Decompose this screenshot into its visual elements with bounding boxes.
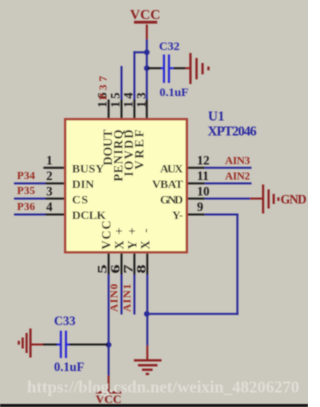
svg-text:BUSY: BUSY xyxy=(72,162,104,176)
svg-text:14: 14 xyxy=(121,92,135,108)
svg-text:11: 11 xyxy=(197,169,209,183)
svg-text:1: 1 xyxy=(46,154,52,168)
svg-text:DCLK: DCLK xyxy=(72,208,107,222)
svg-text:AIN2: AIN2 xyxy=(225,170,251,182)
svg-text:9: 9 xyxy=(197,200,203,214)
svg-text:XPT2046: XPT2046 xyxy=(208,124,257,139)
svg-text:4: 4 xyxy=(46,200,53,214)
svg-text:AIN3: AIN3 xyxy=(225,155,251,167)
svg-text:0.1uF: 0.1uF xyxy=(160,85,189,99)
svg-text:Y-: Y- xyxy=(172,208,183,222)
svg-text:AIN1: AIN1 xyxy=(121,284,133,312)
svg-text:C32: C32 xyxy=(159,39,180,53)
svg-text:VBAT: VBAT xyxy=(152,177,183,191)
svg-text:AIN0: AIN0 xyxy=(109,283,121,312)
svg-text:P37: P37 xyxy=(98,75,110,100)
svg-text:0.1uF: 0.1uF xyxy=(54,360,85,374)
svg-text:2: 2 xyxy=(46,169,52,183)
svg-text:P34: P34 xyxy=(17,170,36,182)
svg-text:12: 12 xyxy=(197,154,210,168)
svg-text:U1: U1 xyxy=(208,109,225,124)
svg-text:VCC: VCC xyxy=(130,8,160,23)
svg-text:10: 10 xyxy=(197,184,210,198)
svg-text:P35: P35 xyxy=(17,185,36,197)
svg-text:AUX: AUX xyxy=(160,162,183,176)
svg-text:VCC: VCC xyxy=(100,221,114,250)
svg-text:C33: C33 xyxy=(54,314,76,328)
svg-text:6: 6 xyxy=(109,265,123,274)
svg-text:DIN: DIN xyxy=(72,177,94,191)
svg-text:P36: P36 xyxy=(17,201,36,213)
svg-text:CS: CS xyxy=(72,192,88,206)
svg-text:GND: GND xyxy=(281,192,307,206)
svg-text:https://blog.csdn.net/weixin_4: https://blog.csdn.net/weixin_48206270 xyxy=(27,378,299,397)
svg-text:GND: GND xyxy=(160,192,183,206)
svg-text:5: 5 xyxy=(96,265,110,274)
svg-text:3: 3 xyxy=(46,184,52,198)
svg-text:7: 7 xyxy=(121,265,135,274)
svg-text:8: 8 xyxy=(134,265,148,274)
